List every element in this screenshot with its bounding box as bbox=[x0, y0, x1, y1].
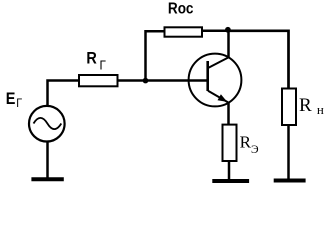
svg-text:E: E bbox=[6, 90, 16, 108]
wire: vertical from base node up to Roc left (corner) bbox=[146, 31, 165, 80]
label RГ bbox=[86, 49, 106, 72]
wire: source top to RГ left (corner) bbox=[48, 81, 80, 107]
wire: collector node to Rн top (corner) bbox=[228, 31, 289, 89]
transistor VT (npn) bbox=[189, 54, 242, 107]
voltage source EГ (sine generator) bbox=[29, 106, 65, 142]
label RЭ bbox=[240, 132, 259, 156]
node: junction of Roc branch and base wire bbox=[143, 78, 149, 84]
resistor RЭ bbox=[223, 125, 237, 161]
svg-text:Э: Э bbox=[251, 144, 259, 156]
ground: under Rн bbox=[274, 179, 306, 183]
wire: collector vertical into transistor bbox=[227, 31, 230, 59]
ground: under source bbox=[31, 177, 63, 181]
svg-text:Г: Г bbox=[100, 58, 107, 73]
resistor RГ bbox=[79, 75, 118, 86]
svg-text:н: н bbox=[317, 102, 324, 117]
label Roc bbox=[168, 1, 193, 18]
svg-text:R: R bbox=[86, 49, 97, 67]
svg-text:R: R bbox=[299, 95, 312, 116]
wire: source bottom to ground bbox=[46, 142, 49, 179]
ground: under RЭ bbox=[212, 179, 249, 183]
wire: Rн bottom to ground bbox=[287, 125, 290, 180]
wire: Roc right to collector node bbox=[202, 30, 228, 33]
resistor Rн bbox=[282, 89, 296, 126]
label EГ bbox=[6, 90, 22, 110]
wire: base wire from RГ right to transistor base bar bbox=[118, 79, 208, 82]
resistor Roc bbox=[165, 27, 203, 36]
svg-text:Rос: Rос bbox=[168, 1, 193, 18]
label Rн bbox=[299, 95, 324, 117]
node: junction of collector, Roc and load branch bbox=[225, 27, 231, 33]
wire: RЭ bottom to ground bbox=[228, 161, 231, 180]
svg-text:Г: Г bbox=[16, 97, 22, 110]
svg-text:R: R bbox=[240, 132, 252, 151]
wire: emitter vertical to RЭ top bbox=[227, 102, 230, 125]
